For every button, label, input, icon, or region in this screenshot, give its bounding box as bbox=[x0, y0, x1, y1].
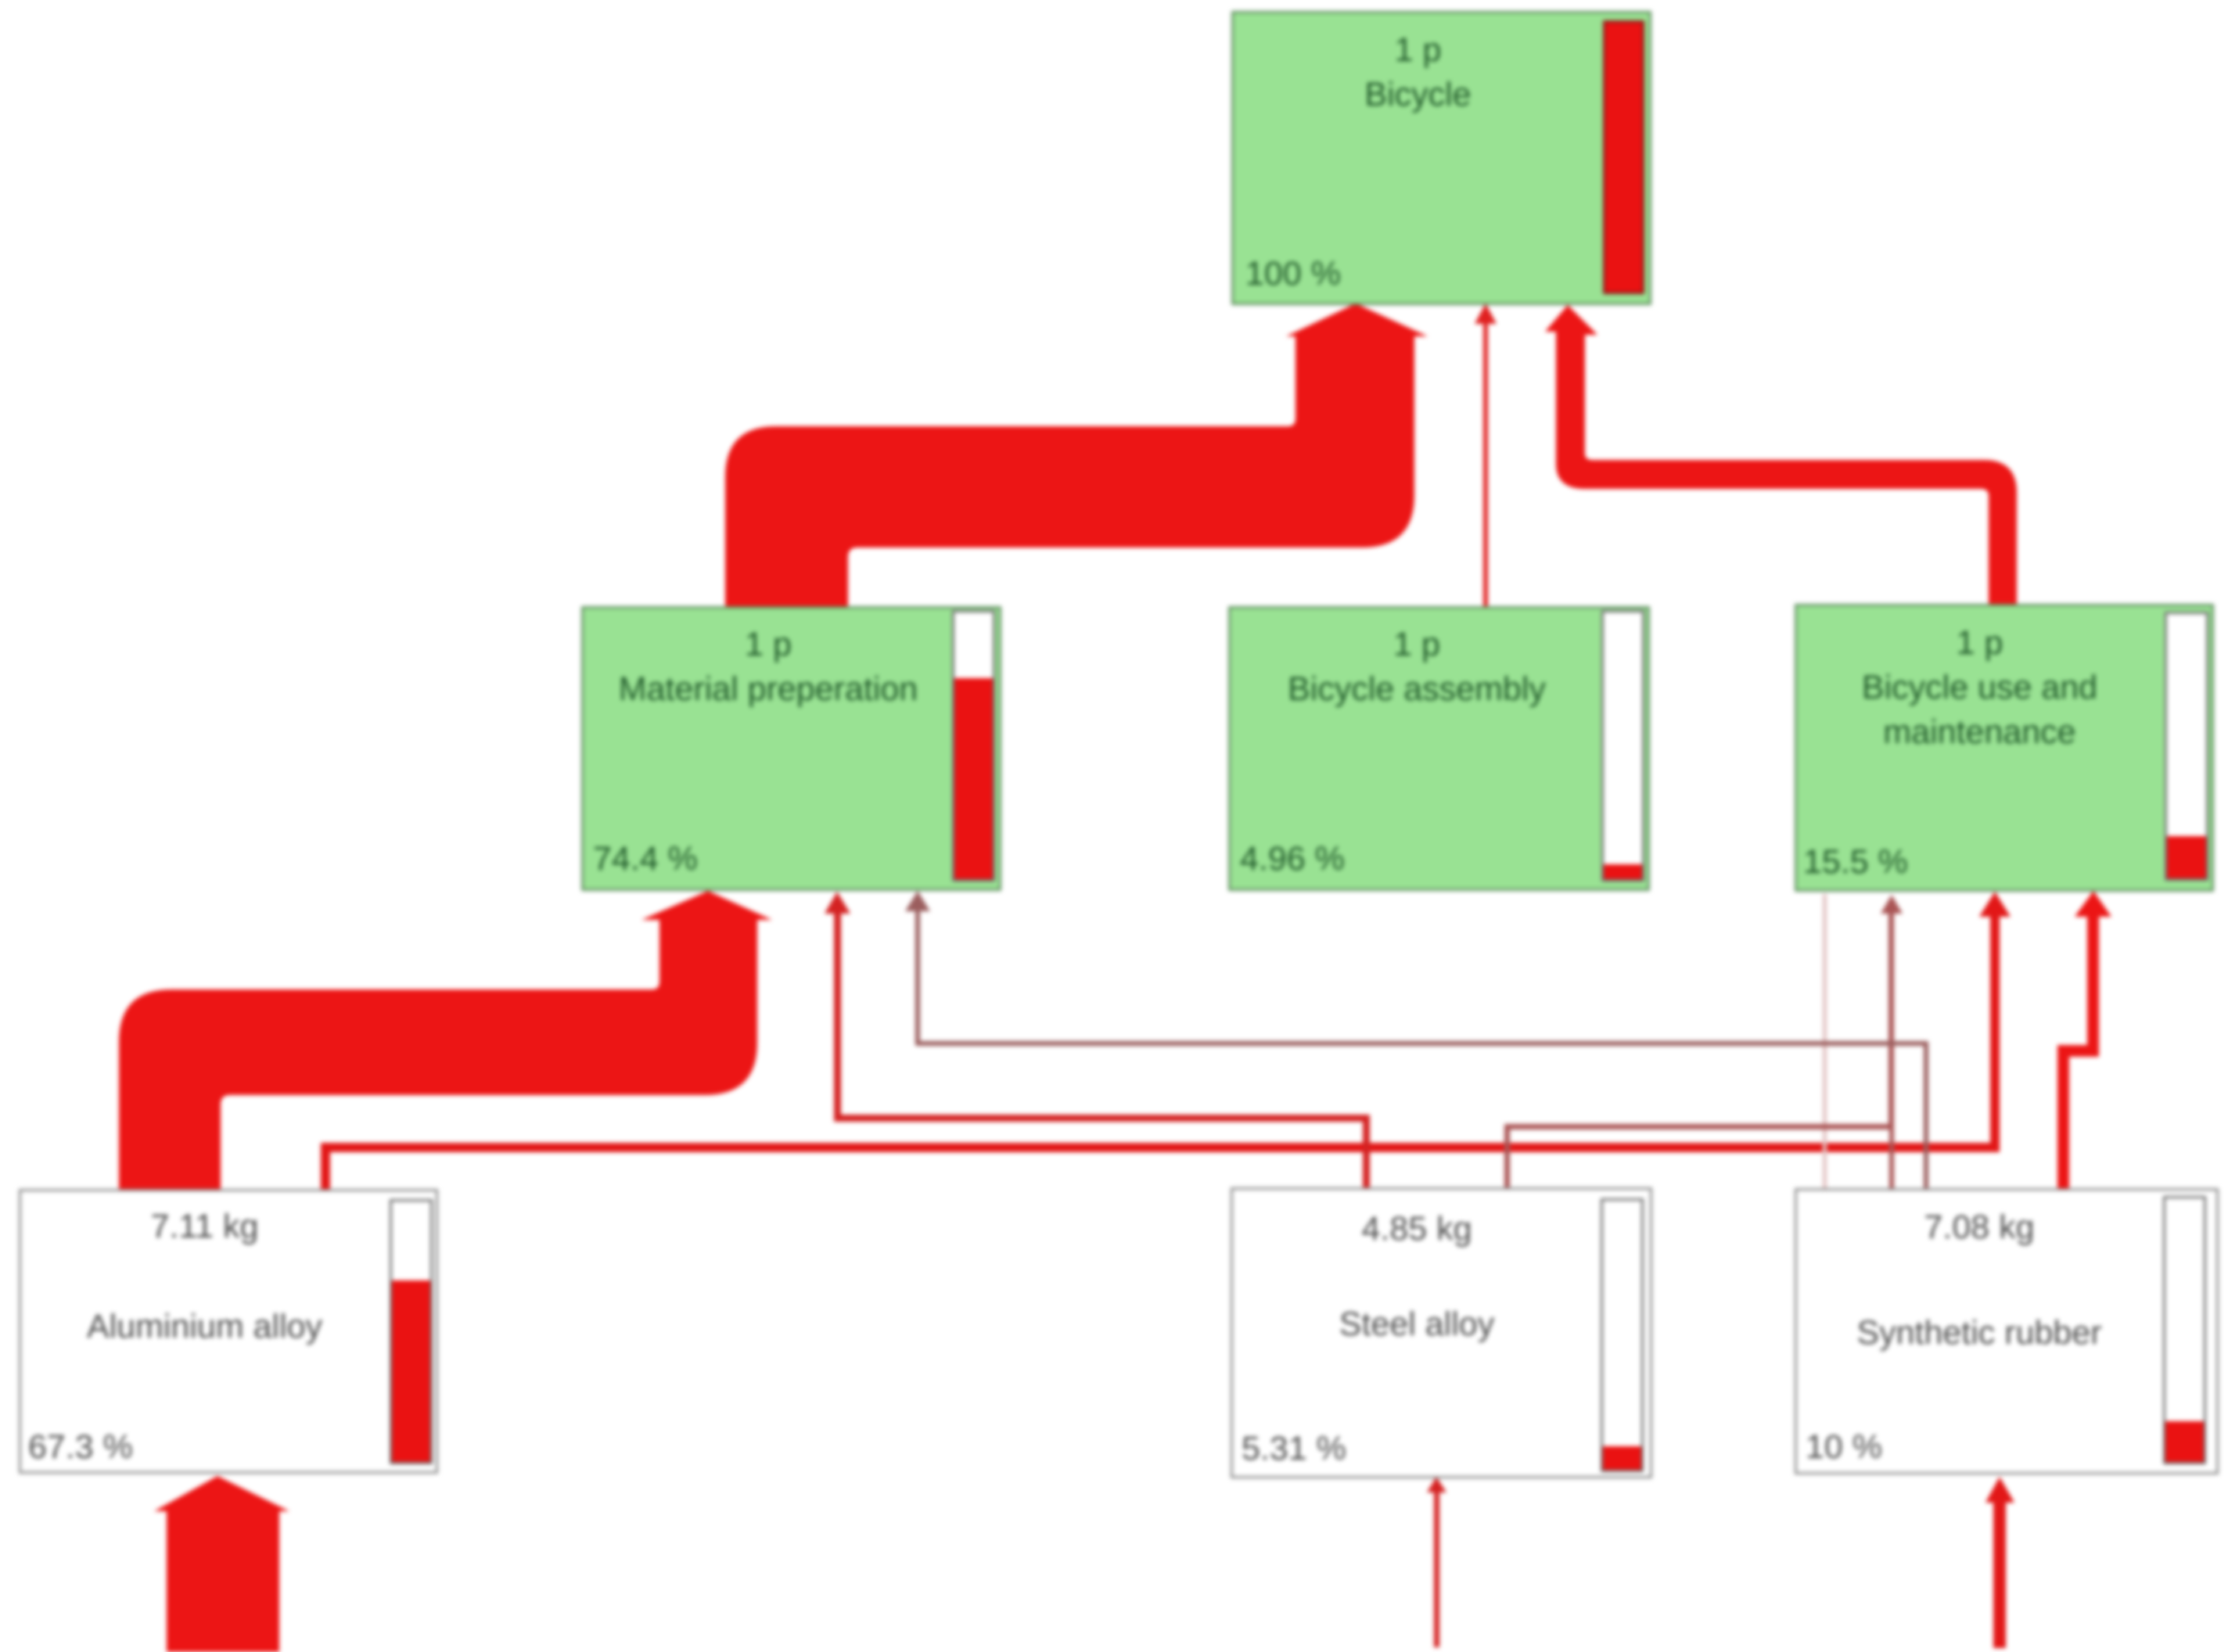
wire: Aluminium alloy to Material preperation (thick band) bbox=[119, 891, 772, 1191]
wire: input arrow into Steel alloy (thin, from bottom edge) bbox=[1427, 1477, 1446, 1647]
wire: Steel alloy to Bicycle use and maintenance (thin dark line) bbox=[1504, 895, 1903, 1190]
gauge of Aluminium alloy bbox=[390, 1199, 433, 1464]
wire: Bicycle assembly to Bicycle (thin arrow) bbox=[1475, 303, 1497, 609]
node Bicycle (top box) bbox=[1231, 11, 1651, 305]
gauge of Material preperation bbox=[952, 610, 995, 882]
node Bicycle assembly bbox=[1228, 606, 1650, 891]
wire: Synthetic rubber to Bicycle use and maintenance (medium band with jog) bbox=[2057, 891, 2111, 1191]
gauge of Steel alloy bbox=[1601, 1198, 1644, 1472]
node Material preperation bbox=[581, 606, 1001, 891]
wire: input arrow into Aluminium alloy (thick, from bottom edge) bbox=[154, 1476, 289, 1652]
gauge of Synthetic rubber bbox=[2163, 1196, 2206, 1464]
wire: input arrow into Synthetic rubber (medium, from bottom edge) bbox=[1985, 1477, 2014, 1648]
wire: Bicycle use and maintenance to Bicycle (medium band) bbox=[1545, 305, 2017, 606]
gauge of Bicycle use and maintenance bbox=[2165, 612, 2208, 881]
node Aluminium alloy bbox=[19, 1189, 438, 1474]
wire: Steel alloy to Material preperation (thin line) bbox=[825, 892, 1370, 1190]
gauge of Bicycle assembly bbox=[1601, 610, 1644, 882]
node Bicycle use and maintenance bbox=[1795, 604, 2214, 892]
node Synthetic rubber bbox=[1795, 1188, 2219, 1474]
wire: Material preperation to Bicycle (thick band) bbox=[725, 303, 1428, 609]
gauge bar of Bicycle (full red) bbox=[1603, 20, 1644, 294]
wire: Synthetic rubber to Material preperation (thin maroon line) bbox=[905, 891, 1928, 1191]
node Steel alloy bbox=[1231, 1187, 1652, 1478]
wire: Aluminium alloy to Bicycle use and maintenance (medium line) bbox=[321, 892, 2011, 1191]
wire: faint flow line from Synthetic rubber up to Bicycle use (very light) bbox=[1823, 894, 1827, 1188]
wire: Synthetic rubber riser under Bicycle use arrow (thin dark vertical) bbox=[1889, 1126, 1894, 1191]
